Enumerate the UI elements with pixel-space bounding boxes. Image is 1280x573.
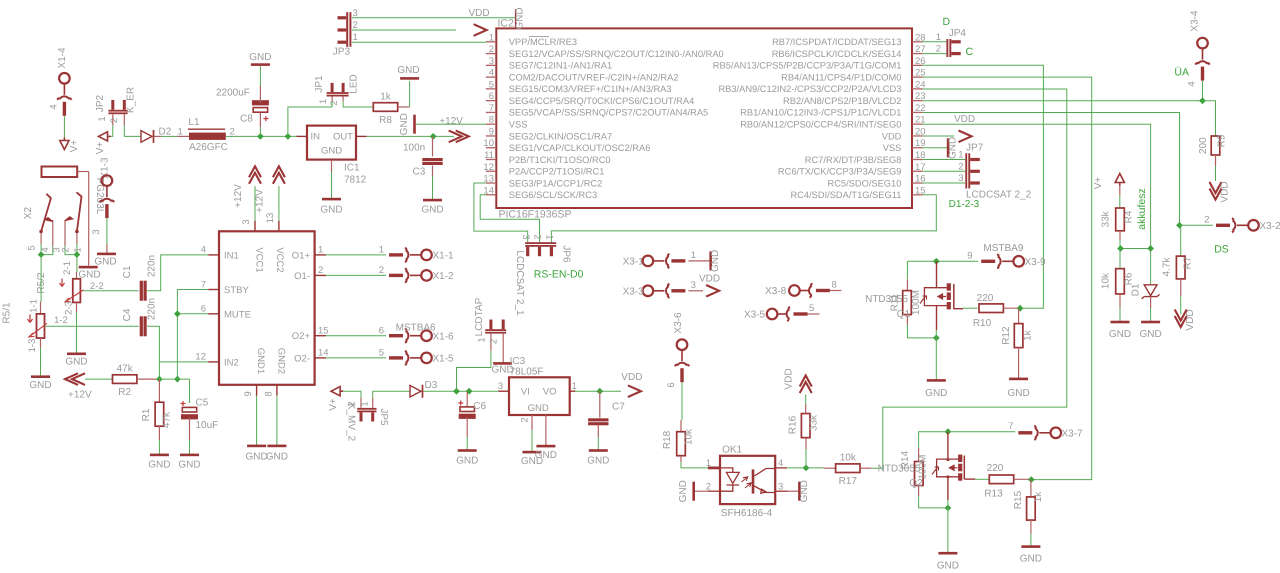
svg-text:IC1: IC1 bbox=[344, 163, 360, 174]
svg-text:2: 2 bbox=[230, 127, 235, 138]
svg-text:D1: D1 bbox=[1131, 283, 1142, 296]
svg-text:R4: R4 bbox=[1123, 210, 1134, 223]
svg-text:R15: R15 bbox=[1013, 490, 1024, 509]
svg-text:4: 4 bbox=[201, 245, 206, 256]
svg-text:GND: GND bbox=[1139, 329, 1161, 340]
svg-text:O1-: O1- bbox=[294, 271, 310, 282]
grounds below amplifier bbox=[247, 445, 266, 448]
svg-text:78L05F: 78L05F bbox=[510, 367, 544, 378]
resistor R6 10k bbox=[1119, 249, 1121, 269]
IC IC3 78L05F bbox=[509, 377, 570, 415]
potentiometer R5/2 bbox=[73, 279, 81, 303]
svg-text:VCC2: VCC2 bbox=[274, 247, 285, 272]
svg-text:GND: GND bbox=[1020, 554, 1042, 565]
svg-text:R12: R12 bbox=[1001, 326, 1012, 345]
svg-text:2-1: 2-1 bbox=[62, 261, 73, 275]
svg-text:2: 2 bbox=[532, 234, 543, 239]
svg-text:3: 3 bbox=[498, 381, 503, 392]
svg-text:2: 2 bbox=[109, 118, 120, 123]
svg-text:X1-2: X1-2 bbox=[433, 271, 455, 282]
svg-text:GND: GND bbox=[148, 460, 170, 471]
IC2 pin 12 (left) bbox=[486, 170, 497, 172]
svg-text:GND: GND bbox=[937, 561, 959, 572]
wire JP3.1 to IC2 pin1 bbox=[352, 41, 486, 43]
supply VDD down-arrow below R7 bbox=[1175, 316, 1187, 327]
wire STBY/MUTE bbox=[177, 290, 208, 380]
svg-text:4: 4 bbox=[1187, 81, 1198, 86]
svg-text:NTD3055: NTD3055 bbox=[865, 294, 908, 305]
ground below R1 bbox=[150, 454, 169, 457]
svg-text:R2: R2 bbox=[118, 387, 131, 398]
ground below R5/2 bbox=[67, 353, 86, 356]
ground below Q2 bbox=[938, 552, 957, 555]
IC2 pin 28 (right) bbox=[912, 41, 923, 43]
connector JP1 LED bbox=[327, 92, 349, 94]
svg-text:2-2: 2-2 bbox=[90, 281, 104, 292]
junction at OK1.4 / R16 / R17 bbox=[787, 467, 824, 469]
svg-text:GND: GND bbox=[799, 480, 810, 502]
svg-text:GND: GND bbox=[1109, 329, 1131, 340]
branch wire to JP1 bbox=[288, 107, 332, 136]
svg-text:33k: 33k bbox=[809, 414, 820, 431]
svg-text:OK1: OK1 bbox=[722, 445, 742, 456]
svg-text:10k: 10k bbox=[840, 453, 857, 464]
wire IC2.22 to X3-2 node bbox=[923, 113, 1180, 226]
connector X1-5 bbox=[326, 357, 386, 359]
IC2 pin 7 (left) bbox=[486, 111, 497, 113]
svg-text:+12V: +12V bbox=[68, 390, 92, 401]
connector X3-5 bbox=[767, 307, 808, 321]
svg-text:RB6/ICSPCLK/ICDCLK/SEG14: RB6/ICSPCLK/ICDCLK/SEG14 bbox=[772, 49, 902, 59]
svg-text:GND: GND bbox=[399, 113, 410, 135]
svg-text:X3-1: X3-1 bbox=[623, 257, 645, 268]
IC2 pin 1 (left) bbox=[486, 41, 497, 43]
svg-text:JP2: JP2 bbox=[95, 94, 106, 112]
svg-text:4: 4 bbox=[778, 458, 783, 469]
svg-text:P2A/CCP2/T1OSI/RC1: P2A/CCP2/T1OSI/RC1 bbox=[509, 167, 605, 177]
IC2 pin 24 (right) bbox=[912, 88, 923, 90]
svg-text:1: 1 bbox=[958, 150, 963, 161]
svg-text:IN1: IN1 bbox=[224, 250, 239, 261]
svg-text:D3: D3 bbox=[425, 380, 438, 391]
svg-text:STBY: STBY bbox=[224, 285, 249, 296]
svg-text:220: 220 bbox=[987, 463, 1004, 474]
svg-text:RB7/ICSPDAT/ICDDAT/SEG13: RB7/ICSPDAT/ICDDAT/SEG13 bbox=[772, 37, 901, 47]
wire C4 to amp IN2 bbox=[147, 326, 159, 379]
ground below R5/1 bbox=[31, 375, 50, 378]
svg-text:X3-7: X3-7 bbox=[1062, 428, 1084, 439]
svg-text:RS-EN-D0: RS-EN-D0 bbox=[534, 269, 584, 281]
svg-text:O1+: O1+ bbox=[292, 250, 311, 261]
svg-text:3: 3 bbox=[353, 8, 358, 19]
svg-text:VDD: VDD bbox=[469, 8, 490, 19]
svg-text:VDD: VDD bbox=[699, 274, 720, 285]
resistor R13 220 bbox=[975, 478, 990, 480]
svg-text:R13: R13 bbox=[984, 489, 1003, 500]
svg-text:X1-6: X1-6 bbox=[433, 331, 455, 342]
svg-text:12: 12 bbox=[195, 352, 206, 363]
svg-text:IN2: IN2 bbox=[224, 357, 239, 368]
svg-text:GND: GND bbox=[456, 456, 478, 467]
capacitor C1 220n bbox=[140, 281, 143, 301]
svg-text:GND1: GND1 bbox=[255, 348, 266, 374]
wire R5/2 wiper to C1 bbox=[84, 290, 139, 292]
IC audio amplifier bbox=[219, 231, 315, 384]
svg-text:JP4: JP4 bbox=[949, 28, 967, 39]
svg-text:1: 1 bbox=[318, 99, 329, 104]
svg-text:VDD: VDD bbox=[1220, 181, 1231, 202]
svg-text:6: 6 bbox=[379, 326, 384, 337]
svg-text:8: 8 bbox=[832, 280, 837, 291]
svg-text:MUTE: MUTE bbox=[224, 309, 251, 320]
svg-text:R6: R6 bbox=[1123, 272, 1134, 285]
svg-text:1: 1 bbox=[379, 245, 384, 256]
capacitor C5 10uF bbox=[189, 379, 191, 403]
wire IC2.23 to X3-4 node bbox=[923, 100, 1203, 102]
svg-text:33k: 33k bbox=[1101, 210, 1112, 227]
wire JP3.3 to IC2 GND pin bbox=[352, 17, 516, 19]
diode D2 bbox=[141, 131, 152, 143]
JP3 pin 2 stub bbox=[338, 28, 347, 31]
svg-text:VO: VO bbox=[543, 387, 557, 398]
svg-text:+12V: +12V bbox=[233, 184, 244, 208]
svg-text:LCDCSAT 2_1: LCDCSAT 2_1 bbox=[514, 250, 525, 316]
svg-text:C3: C3 bbox=[413, 167, 426, 178]
svg-text:3: 3 bbox=[489, 56, 494, 67]
svg-text:4.7k: 4.7k bbox=[1162, 257, 1173, 277]
svg-text:RB1/AN10/C12IN3-/CPS1/P1C/VLCD: RB1/AN10/C12IN3-/CPS1/P1C/VLCD1 bbox=[740, 108, 901, 118]
svg-text:IC2: IC2 bbox=[498, 18, 515, 30]
svg-text:GND: GND bbox=[678, 480, 689, 502]
svg-text:GND: GND bbox=[266, 452, 288, 463]
svg-text:GND: GND bbox=[710, 250, 721, 272]
svg-text:X2: X2 bbox=[23, 206, 34, 219]
svg-text:1: 1 bbox=[477, 337, 488, 342]
potentiometer R5/1 bbox=[37, 314, 45, 338]
ground at OK1 pin2 bbox=[695, 490, 708, 492]
wire IC2.26 to R10/R12 node bbox=[923, 65, 1044, 308]
IC2 pin 5 (left) bbox=[486, 88, 497, 90]
connector X3-8 bbox=[789, 283, 830, 297]
wire IC2.27 to JP4.2 bbox=[923, 53, 947, 55]
wire IC1 OUT +12V rail bbox=[367, 135, 455, 137]
svg-text:MSTBA6: MSTBA6 bbox=[396, 323, 436, 334]
wire R5/1 wiper to C4 bbox=[45, 325, 139, 327]
svg-text:12: 12 bbox=[483, 162, 494, 173]
svg-text:C6: C6 bbox=[473, 401, 486, 412]
svg-text:7812: 7812 bbox=[344, 175, 367, 186]
diode D3 bbox=[373, 390, 410, 392]
svg-text:JP1: JP1 bbox=[314, 75, 325, 93]
connector JP2 K_ER bbox=[108, 110, 127, 112]
ground at LCDTAP pin2 bbox=[502, 342, 504, 363]
svg-text:JP7: JP7 bbox=[966, 143, 984, 154]
ground at OK1 pin3 bbox=[788, 490, 799, 492]
svg-text:SEG6/SCL/SCK/RC3: SEG6/SCL/SCK/RC3 bbox=[509, 190, 597, 200]
svg-text:LCDTAP: LCDTAP bbox=[474, 297, 485, 336]
svg-text:2: 2 bbox=[1204, 215, 1209, 226]
capacitor C7 bbox=[599, 391, 601, 418]
svg-text:SEG2/CLKIN/OSC1/RA7: SEG2/CLKIN/OSC1/RA7 bbox=[509, 131, 612, 141]
svg-text:X1-1: X1-1 bbox=[433, 251, 455, 262]
svg-text:8: 8 bbox=[264, 391, 275, 396]
ground above R8 bbox=[400, 77, 419, 80]
svg-text:3: 3 bbox=[691, 280, 696, 291]
svg-text:RC6/TX/CK/CCP3/P3A/SEG9: RC6/TX/CK/CCP3/P3A/SEG9 bbox=[778, 167, 901, 177]
svg-text:R16: R16 bbox=[788, 415, 799, 434]
svg-text:O2+: O2+ bbox=[292, 331, 311, 342]
resistor R8 1k bbox=[373, 103, 397, 112]
svg-text:P2B/T1CKI/T1OSO/RC0: P2B/T1CKI/T1OSO/RC0 bbox=[509, 155, 611, 165]
svg-text:GND2: GND2 bbox=[276, 348, 287, 374]
svg-text:SEG1/VCAP/CLKOUT/OSC2/RA6: SEG1/VCAP/CLKOUT/OSC2/RA6 bbox=[509, 143, 651, 153]
svg-text:1: 1 bbox=[489, 32, 494, 43]
wires IC2.18/17/16 to JP7 bbox=[923, 159, 966, 161]
svg-text:K_MV_2: K_MV_2 bbox=[346, 403, 357, 442]
svg-text:1: 1 bbox=[936, 32, 941, 43]
supply +12V chevron left bbox=[65, 373, 78, 385]
svg-text:1: 1 bbox=[691, 250, 696, 261]
connector X1-6 bbox=[326, 335, 386, 337]
svg-text:X1-4: X1-4 bbox=[57, 47, 68, 69]
svg-text:C5: C5 bbox=[196, 398, 209, 409]
supply VDD up-arrow above R16 bbox=[800, 376, 812, 387]
IC2 pin 22 (right) bbox=[912, 111, 923, 113]
ground below R15 bbox=[1021, 545, 1040, 548]
svg-text:C1: C1 bbox=[122, 265, 133, 278]
IC2 pin 21 (right) bbox=[912, 123, 923, 125]
connector JP4 bbox=[946, 39, 948, 57]
connector JP3 bbox=[346, 12, 348, 47]
svg-text:R1: R1 bbox=[141, 408, 152, 421]
svg-text:VCC1: VCC1 bbox=[254, 247, 265, 272]
svg-text:JP5: JP5 bbox=[378, 408, 389, 426]
IC2 top GND pin bbox=[515, 9, 517, 28]
transistor Q1 NTD3055 bbox=[933, 258, 940, 265]
svg-text:GND: GND bbox=[397, 65, 419, 76]
svg-text:Q2: Q2 bbox=[909, 478, 923, 489]
IC2 pin 20 (right) bbox=[912, 135, 923, 137]
JP3 pin 3 stub bbox=[338, 16, 347, 19]
IC2 pin 19 (right) bbox=[912, 147, 923, 149]
svg-text:OUT: OUT bbox=[333, 132, 353, 143]
svg-text:R8: R8 bbox=[379, 115, 392, 126]
svg-text:D: D bbox=[943, 16, 951, 28]
svg-text:47k: 47k bbox=[162, 411, 173, 428]
svg-text:+12V: +12V bbox=[255, 189, 266, 213]
svg-text:SEG12/VCAP/SS/SRNQ/C2OUT/C12IN: SEG12/VCAP/SS/SRNQ/C2OUT/C12IN0-/AN0/RA0 bbox=[509, 49, 724, 59]
svg-text:10uF: 10uF bbox=[196, 420, 219, 431]
ground at X2 pin1 bbox=[79, 266, 98, 269]
wire X2 pole A to R5/1 bbox=[40, 255, 42, 302]
connector X3-9 MSTBA9 bbox=[981, 254, 1024, 268]
svg-text:1k: 1k bbox=[1033, 491, 1044, 503]
resistor R7 4.7k bbox=[1180, 225, 1182, 256]
svg-text:9: 9 bbox=[967, 251, 972, 262]
svg-text:SEG4/CCP5/SRQ/T0CKI/CPS6/C1OUT: SEG4/CCP5/SRQ/T0CKI/CPS6/C1OUT/RA4 bbox=[509, 96, 694, 106]
wire C1 to amp IN1 bbox=[147, 255, 208, 291]
svg-text:L1: L1 bbox=[188, 117, 200, 128]
svg-text:VDD: VDD bbox=[954, 114, 975, 125]
svg-text:5: 5 bbox=[379, 348, 384, 359]
svg-text:8: 8 bbox=[489, 115, 494, 126]
svg-text:C7: C7 bbox=[612, 402, 625, 413]
ground bar at IC2.19 (VSS) bbox=[923, 147, 947, 149]
svg-text:VSS: VSS bbox=[509, 119, 528, 129]
ground below X1-3 bbox=[97, 253, 116, 256]
svg-text:7: 7 bbox=[1008, 421, 1013, 432]
svg-text:C: C bbox=[966, 46, 974, 58]
transistor Q2 NTD3055 bbox=[947, 432, 949, 459]
svg-text:11: 11 bbox=[484, 150, 494, 161]
svg-text:K_ER: K_ER bbox=[126, 87, 137, 113]
capacitor C4 220n bbox=[140, 316, 143, 336]
wire IC2.25 to R13/R15 node bbox=[923, 77, 1092, 480]
IC IC2 PIC16F1936SP bbox=[496, 28, 912, 208]
svg-text:1-3: 1-3 bbox=[27, 339, 38, 353]
IC2 pin 2 (left) bbox=[486, 53, 497, 55]
svg-text:V+: V+ bbox=[1093, 177, 1104, 190]
JP3 pin 1 stub bbox=[338, 41, 347, 44]
svg-text:2: 2 bbox=[329, 100, 340, 105]
svg-text:GND: GND bbox=[29, 380, 51, 391]
wire IC2.14 to JP6.2 bbox=[480, 195, 539, 242]
svg-text:GND: GND bbox=[320, 205, 342, 216]
svg-text:6: 6 bbox=[201, 304, 206, 315]
svg-text:2-3: 2-3 bbox=[64, 301, 75, 315]
svg-text:akkufesz: akkufesz bbox=[1136, 188, 1148, 229]
svg-text:10k: 10k bbox=[1101, 272, 1112, 289]
ground below C6 bbox=[458, 449, 477, 452]
svg-text:C8: C8 bbox=[240, 114, 253, 125]
svg-text:2: 2 bbox=[489, 44, 494, 55]
IC IC1 7812 regulator bbox=[307, 126, 356, 160]
resistor R17 10k bbox=[824, 467, 836, 469]
svg-text:RB3/AN9/C12IN2-/CPS3/CCP2/P2A/: RB3/AN9/C12IN2-/CPS3/CCP2/P2A/VLCD3 bbox=[718, 84, 901, 94]
svg-text:1k: 1k bbox=[380, 92, 392, 103]
svg-text:VPP/MCLR/RE3: VPP/MCLR/RE3 bbox=[509, 37, 577, 47]
ground above C8 bbox=[251, 63, 270, 66]
wire IC2.15 to JP6.1 bbox=[551, 195, 936, 242]
ground below D1 bbox=[1141, 321, 1160, 324]
svg-text:4: 4 bbox=[49, 104, 60, 109]
svg-text:9: 9 bbox=[243, 391, 254, 396]
svg-text:3: 3 bbox=[958, 173, 963, 184]
svg-text:3: 3 bbox=[91, 229, 102, 234]
rotated ground at IC2 pin8 (VSS) bbox=[416, 123, 486, 125]
svg-text:GND: GND bbox=[515, 7, 526, 29]
svg-text:7: 7 bbox=[489, 103, 494, 114]
IC1 GND pin bbox=[331, 160, 333, 172]
IC2 pin 18 (right) bbox=[912, 159, 923, 161]
resistor R4 33k bbox=[1116, 208, 1125, 231]
supply +12V chevron bbox=[456, 131, 469, 143]
svg-text:3: 3 bbox=[241, 219, 252, 224]
ground below R6 bbox=[1111, 321, 1130, 324]
svg-text:2200uF: 2200uF bbox=[216, 88, 250, 99]
svg-text:6: 6 bbox=[666, 382, 677, 387]
svg-text:R9: R9 bbox=[1217, 134, 1228, 147]
svg-text:GND: GND bbox=[178, 460, 200, 471]
svg-text:X3-8: X3-8 bbox=[765, 286, 787, 297]
capacitor C8 2200uF bbox=[259, 113, 261, 127]
svg-text:GND: GND bbox=[65, 357, 87, 368]
IC2 pin 15 (right) bbox=[912, 194, 923, 196]
optocoupler OK1 SFH6186-4 bbox=[720, 456, 775, 504]
IC2 pin 9 (left) bbox=[486, 135, 497, 137]
svg-text:220n: 220n bbox=[147, 255, 158, 277]
supply VDD chevron at IC2.20 bbox=[923, 135, 954, 137]
svg-text:1: 1 bbox=[543, 234, 554, 239]
IC2 pin 25 (right) bbox=[912, 76, 923, 78]
svg-text:1-1: 1-1 bbox=[29, 299, 40, 313]
svg-text:5: 5 bbox=[489, 79, 494, 90]
svg-text:100n: 100n bbox=[403, 143, 425, 154]
resistor R9 200 bbox=[1203, 101, 1216, 136]
wire X3-9 to Q1 drain node bbox=[907, 260, 978, 262]
ground below R12 bbox=[1009, 378, 1028, 381]
wire IC2.28 to JP4.1 bbox=[923, 41, 947, 43]
svg-text:GND: GND bbox=[421, 205, 443, 216]
svg-text:MSTBA9: MSTBA9 bbox=[983, 243, 1023, 254]
svg-text:9: 9 bbox=[489, 126, 494, 137]
svg-text:GND: GND bbox=[245, 452, 267, 463]
IC2 pin 13 (left) bbox=[486, 182, 497, 184]
svg-text:+12V: +12V bbox=[439, 116, 463, 127]
svg-text:X3-9: X3-9 bbox=[1025, 257, 1047, 268]
svg-text:6: 6 bbox=[489, 91, 494, 102]
connector JP7 LCDCSAT 2_2 bbox=[965, 153, 967, 188]
svg-text:R17: R17 bbox=[839, 476, 858, 487]
capacitor C6 bbox=[466, 391, 468, 406]
svg-text:1: 1 bbox=[706, 458, 711, 469]
svg-text:15: 15 bbox=[318, 326, 329, 337]
svg-text:220: 220 bbox=[977, 293, 994, 304]
svg-text:X3-6: X3-6 bbox=[673, 312, 684, 334]
svg-text:RB5/AN13/CPS5/P2B/CCP3/P3A/T1G: RB5/AN13/CPS5/P2B/CCP3/P3A/T1G/COM1 bbox=[713, 61, 902, 71]
wire L1 to IC1 bbox=[226, 135, 297, 137]
X2 pole A bbox=[39, 230, 43, 234]
supply V+ triangle at JP5 bbox=[331, 387, 343, 396]
IC2 pin 14 (left) bbox=[486, 194, 497, 196]
supply VDD chevron at IC3 out bbox=[628, 385, 641, 397]
svg-text:SEG5/VCAP/SS/SRNQ/CPS7/C2OUT/A: SEG5/VCAP/SS/SRNQ/CPS7/C2OUT/AN4/RA5 bbox=[509, 108, 708, 118]
svg-text:COM2/DACOUT/VREF-/C2IN+/AN2/RA: COM2/DACOUT/VREF-/C2IN+/AN2/RA2 bbox=[509, 72, 679, 82]
svg-text:5: 5 bbox=[809, 303, 814, 314]
svg-text:1-2: 1-2 bbox=[54, 315, 68, 326]
capacitor C3 100n bbox=[432, 136, 434, 156]
svg-text:7: 7 bbox=[201, 279, 206, 290]
svg-text:1: 1 bbox=[353, 32, 358, 43]
svg-text:10: 10 bbox=[483, 138, 494, 149]
svg-text:2: 2 bbox=[318, 265, 323, 276]
jumper LCDTAP bbox=[457, 351, 491, 392]
connector JP6 LCDCSAT 2_1 bbox=[525, 242, 556, 244]
svg-text:10k: 10k bbox=[684, 428, 695, 445]
svg-text:VI: VI bbox=[521, 387, 530, 398]
ground below C3 bbox=[423, 199, 442, 202]
svg-text:RB2/AN8/CPS2/P1B/VLCD2: RB2/AN8/CPS2/P1B/VLCD2 bbox=[783, 96, 901, 106]
IC2 pin 11 (left) bbox=[486, 159, 497, 161]
svg-text:2: 2 bbox=[936, 44, 941, 55]
supply V+ triangle above R4 bbox=[1115, 174, 1124, 186]
ground bar at X3-1 bbox=[709, 251, 712, 270]
supply VDD chevron at X3-3 bbox=[706, 285, 719, 297]
svg-text:1: 1 bbox=[359, 401, 370, 406]
IC2 pin 6 (left) bbox=[486, 100, 497, 102]
svg-text:R18: R18 bbox=[662, 430, 673, 449]
svg-text:14: 14 bbox=[318, 348, 329, 359]
